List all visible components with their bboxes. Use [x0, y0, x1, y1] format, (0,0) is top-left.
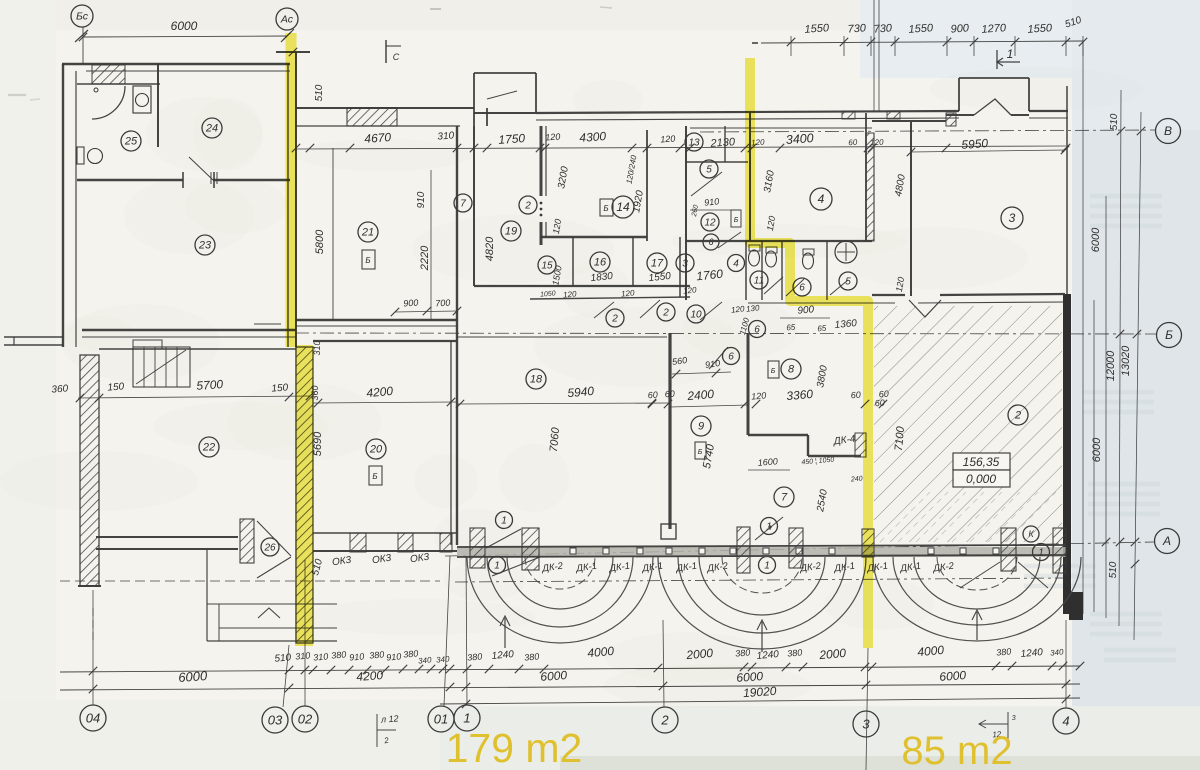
room circle 11 [750, 271, 768, 289]
svg-text:6000: 6000 [939, 668, 967, 684]
svg-text:85 m2: 85 m2 [901, 729, 1012, 770]
ext line 02 [304, 560, 306, 706]
wall 13-5 [686, 161, 748, 163]
ghost text right margin [1024, 196, 1176, 660]
svg-text:6000: 6000 [171, 19, 198, 33]
svg-text:5: 5 [706, 164, 712, 175]
room2 extra hatch dashes [880, 492, 1056, 542]
svg-text:179 m2: 179 m2 [446, 725, 583, 770]
svg-text:17: 17 [651, 258, 664, 270]
room18 dim line [457, 403, 670, 404]
room18 left wall [456, 320, 458, 545]
axis line B [295, 333, 1156, 334]
svg-text:2400: 2400 [686, 387, 715, 403]
wall step v [807, 435, 809, 456]
door diag win [755, 517, 783, 540]
arrow arcs mid [761, 622, 763, 652]
room4 left wall [749, 113, 751, 241]
svg-text:1270: 1270 [981, 22, 1007, 36]
axis circle 3 [853, 711, 879, 737]
room circle 7 door [454, 194, 472, 212]
room3 top wall piece [872, 120, 946, 122]
room21 top wall [296, 107, 474, 109]
window pillar 6 [1001, 528, 1016, 571]
svg-text:4: 4 [1062, 713, 1069, 728]
svg-text:310: 310 [312, 340, 322, 355]
left margin [0, 0, 56, 700]
svg-text:310: 310 [295, 650, 311, 661]
svg-text:Б: Б [734, 217, 739, 224]
toilet left wall [745, 241, 747, 300]
svg-text:1: 1 [494, 560, 500, 571]
svg-text:3: 3 [1012, 715, 1017, 722]
room21 right wall [456, 126, 458, 320]
right dim line e [1134, 112, 1141, 640]
svg-text:120: 120 [731, 304, 746, 314]
level box [953, 453, 1010, 470]
building right wall thick [1063, 294, 1071, 614]
svg-text:5700: 5700 [196, 377, 224, 393]
blue-gray right margin [1072, 0, 1200, 770]
staircase [133, 347, 190, 387]
room3 top hatch [946, 113, 956, 126]
window pillar 5 [862, 529, 874, 557]
DK labels row [541, 561, 956, 575]
svg-text:380: 380 [996, 646, 1012, 657]
svg-text:2: 2 [660, 712, 669, 727]
scan mottling [0, 67, 1143, 708]
svg-text:2130: 2130 [709, 136, 736, 150]
svg-text:12: 12 [704, 217, 716, 228]
dim 910 small [690, 209, 740, 211]
bathroom inner wall [77, 83, 160, 85]
dim 900 corr [780, 317, 830, 319]
main dim row [296, 146, 1066, 149]
svg-text:1240: 1240 [1020, 647, 1044, 660]
svg-text:1: 1 [463, 710, 470, 725]
svg-text:380: 380 [403, 648, 419, 659]
svg-text:120: 120 [545, 131, 561, 142]
terrace steps [206, 550, 208, 641]
svg-text:7100: 7100 [893, 425, 907, 451]
wall step h2 [808, 455, 861, 457]
svg-text:1360: 1360 [834, 318, 858, 331]
svg-text:22: 22 [202, 442, 215, 454]
toilet door diag [764, 277, 783, 294]
room14 right wall [646, 130, 648, 241]
bottom dim row 3 [440, 698, 1080, 704]
room circle 25 [121, 131, 141, 151]
svg-text:120: 120 [751, 390, 767, 401]
ext line 1 [466, 556, 467, 705]
svg-text:Б: Б [603, 204, 608, 213]
door jamb ticks [182, 172, 184, 188]
ext line 01 [444, 556, 450, 706]
section line vertical [873, 0, 875, 112]
svg-text:910: 910 [349, 651, 365, 662]
svg-text:360: 360 [51, 383, 69, 395]
svg-text:6000: 6000 [178, 668, 209, 685]
svg-text:3: 3 [682, 258, 688, 269]
left hatched wall [80, 355, 99, 586]
svg-text:2: 2 [611, 313, 618, 324]
axis circle 4 [1053, 708, 1079, 734]
svg-text:24: 24 [205, 123, 218, 135]
svg-text:1550: 1550 [908, 22, 934, 36]
corridor inner wall [530, 297, 690, 299]
bottom strip right [440, 706, 1200, 770]
room circle 2 small [519, 196, 537, 214]
pillar hatched room22 [240, 519, 254, 563]
axis circle 04 [80, 705, 106, 731]
entrance bay [958, 78, 960, 111]
room circle 6 corr [749, 321, 766, 338]
door leaf room12 [718, 232, 741, 248]
main top wall [536, 111, 959, 113]
toilet partition 2 [781, 241, 783, 300]
room14 left wall [545, 126, 547, 196]
right dim line c [1105, 196, 1107, 618]
margin specks [8, 94, 26, 96]
room19 right wall [540, 126, 543, 196]
svg-text:560: 560 [671, 355, 687, 367]
svg-text:4000: 4000 [917, 643, 945, 659]
wall under rooms 25-24 [77, 179, 183, 181]
room circle 21 [358, 222, 378, 242]
svg-text:21: 21 [361, 227, 374, 239]
axis circle V [1156, 119, 1181, 144]
room circle 15 [538, 256, 556, 274]
svg-text:910: 910 [416, 191, 427, 208]
svg-text:340: 340 [1050, 647, 1065, 657]
svg-text:14: 14 [616, 200, 630, 214]
svg-text:Б: Б [771, 368, 776, 375]
room circle 22 [199, 437, 219, 457]
svg-text:120: 120 [563, 289, 578, 299]
room21 B box [362, 250, 375, 269]
ext line 3 [866, 648, 868, 770]
party wall hatched lower [296, 347, 313, 643]
room9 top dim [672, 372, 731, 374]
room3 dim line [911, 150, 1065, 152]
room9-8 divide dim [670, 405, 748, 407]
bay side walls [473, 113, 475, 126]
toilet row top wall [686, 240, 872, 242]
hatched block top wall [347, 108, 397, 126]
svg-text:13020: 13020 [1120, 345, 1132, 376]
bottom row2 ticks [89, 680, 1070, 693]
room circle 1 wR [1033, 544, 1050, 561]
room2 door V [909, 300, 941, 317]
svg-text:16: 16 [594, 257, 607, 269]
revision mark 12 right [980, 723, 1008, 725]
room19 left wall [473, 126, 475, 286]
wall 9 right [747, 333, 750, 435]
room21 left inner line [332, 148, 334, 320]
terrace dashed line [60, 580, 440, 582]
svg-text:310: 310 [437, 130, 455, 142]
room20 window wall [313, 532, 457, 534]
room circle 10 [687, 305, 705, 323]
svg-text:3360: 3360 [786, 387, 814, 403]
svg-text:510: 510 [1109, 113, 1120, 130]
svg-text:1760: 1760 [696, 267, 724, 284]
axis circle Ac [276, 8, 298, 30]
room2 floor hatch [874, 306, 1062, 542]
svg-text:12000: 12000 [1105, 350, 1117, 381]
svg-text:10: 10 [690, 309, 702, 320]
washing machine [133, 86, 151, 113]
room2 top wall [872, 294, 905, 296]
yellow highlight line 1 upper [286, 33, 297, 347]
svg-text:510: 510 [314, 84, 325, 101]
toilet fixture 3 [803, 249, 814, 255]
svg-text:6: 6 [708, 237, 713, 247]
svg-text:6: 6 [728, 351, 734, 362]
svg-text:В: В [1164, 124, 1172, 138]
window pillar 7 [1053, 528, 1066, 573]
room4 right wall [865, 113, 867, 241]
svg-text:А: А [1162, 534, 1171, 548]
svg-text:0,000: 0,000 [966, 472, 996, 486]
svg-text:4300: 4300 [579, 129, 607, 145]
room circle K [1023, 526, 1039, 542]
entrance arcs left [467, 557, 653, 643]
window band fill [457, 547, 1066, 557]
svg-text:60: 60 [647, 390, 658, 401]
room20 window pillars [350, 533, 366, 552]
svg-text:4200: 4200 [356, 668, 384, 684]
toilet fixture 1 [749, 245, 760, 251]
wall step hatch [855, 433, 866, 457]
svg-text:2: 2 [524, 200, 531, 211]
room20 top wall [313, 340, 457, 342]
axis circle Bc [71, 5, 93, 27]
room20 B box [369, 466, 382, 485]
svg-text:60: 60 [874, 398, 885, 409]
room circle 18 [526, 369, 546, 389]
svg-text:900: 900 [950, 22, 970, 35]
room circle 17 [647, 253, 667, 273]
svg-text:19020: 19020 [743, 684, 778, 700]
axis circle 02 [292, 706, 318, 732]
svg-text:Б: Б [372, 472, 377, 481]
room14 B box [600, 199, 613, 216]
room circle 5 wc [700, 160, 718, 178]
door swings room26 [257, 521, 291, 556]
door swing winR [1018, 562, 1048, 588]
axis line A [445, 542, 1154, 556]
room12 B box [731, 210, 741, 227]
room21 bottom wall [296, 319, 457, 321]
room circle 3 [1001, 207, 1023, 229]
svg-text:6000: 6000 [540, 668, 568, 684]
party wall top T [276, 51, 310, 53]
svg-text:380: 380 [524, 651, 540, 662]
room22 bottom wall [96, 536, 238, 538]
room8 B box [768, 361, 779, 378]
svg-text:60: 60 [664, 389, 675, 400]
svg-text:3400: 3400 [785, 131, 814, 147]
ext line 03 [283, 645, 289, 707]
svg-text:13: 13 [688, 137, 700, 148]
svg-text:3: 3 [1009, 211, 1016, 225]
bottom row1 labels [274, 643, 1064, 666]
room circle 16 [590, 252, 610, 272]
top bay [473, 73, 475, 113]
entrance bay peak [974, 99, 1011, 115]
canopy dash line [455, 578, 1066, 582]
svg-text:130: 130 [746, 303, 761, 313]
svg-text:150: 150 [271, 382, 289, 394]
axis circle 01 [428, 706, 454, 732]
main dim row ticks [292, 144, 1070, 152]
axis tick under Bc [75, 30, 88, 42]
svg-text:1600: 1600 [757, 456, 778, 468]
window pillar 4 [789, 528, 803, 568]
svg-text:1750: 1750 [498, 131, 526, 147]
yellow highlight line 2 [750, 58, 868, 648]
room circle 6 topdoor [723, 348, 740, 365]
svg-text:510: 510 [1108, 561, 1119, 578]
arrow arcs left [504, 618, 506, 648]
svg-text:Ас: Ас [280, 14, 294, 26]
svg-text:6000: 6000 [1090, 227, 1102, 252]
svg-text:1: 1 [1007, 47, 1014, 61]
svg-text:730: 730 [873, 22, 893, 35]
room21 inner dim line [430, 170, 432, 320]
svg-text:156,35: 156,35 [963, 455, 1000, 469]
room21 small dims [395, 311, 457, 312]
svg-text:4820: 4820 [484, 236, 496, 261]
room circle 13 [685, 133, 703, 151]
dim row left block [78, 396, 310, 398]
svg-text:23: 23 [198, 240, 212, 252]
dim 1600 [748, 469, 790, 471]
svg-text:9: 9 [698, 421, 704, 433]
svg-text:65: 65 [786, 323, 796, 333]
svg-text:7060: 7060 [548, 426, 562, 452]
bottom dim row 1 [60, 666, 1080, 672]
door dots room19 [540, 202, 542, 204]
room circle 1 w18b [489, 557, 506, 574]
top wall left block [62, 63, 290, 65]
svg-text:18: 18 [530, 374, 543, 386]
window pillar 3 [737, 527, 750, 573]
svg-text:С: С [393, 52, 400, 62]
ext line 2 [663, 620, 664, 707]
svg-text:1550: 1550 [804, 22, 830, 36]
room circle 2 corr a [606, 309, 624, 327]
door diag 6 [709, 347, 728, 369]
svg-text:26: 26 [263, 542, 276, 553]
room18 top line [457, 336, 667, 338]
bay floor wall [474, 112, 536, 114]
room circle 1 w7a [769, 526, 771, 528]
bottom dim row 2 [60, 684, 1080, 690]
ext line 04 [92, 590, 94, 705]
room circle 6 wc [793, 278, 811, 296]
dim row room20 [313, 402, 457, 403]
top dimension ticks [787, 36, 1087, 56]
bathroom hatched wall [92, 65, 125, 84]
svg-text:4670: 4670 [364, 130, 392, 146]
right wall upper thin [1066, 86, 1068, 294]
bottom row2 labels [178, 668, 967, 685]
svg-text:1: 1 [1038, 547, 1044, 558]
corridor top wall [474, 285, 690, 287]
svg-text:1050: 1050 [540, 290, 556, 298]
svg-text:900: 900 [797, 304, 815, 316]
svg-text:03: 03 [268, 712, 283, 727]
room circle 3 small [676, 254, 694, 272]
window band mullions [570, 548, 999, 554]
svg-text:1240: 1240 [756, 649, 780, 662]
room circle 2 [1008, 405, 1028, 425]
right dim line b [1093, 300, 1095, 612]
room circle 6 small [703, 234, 719, 250]
svg-text:2000: 2000 [685, 646, 714, 662]
bottom row1 ticks [89, 662, 1084, 675]
svg-text:Б: Б [698, 449, 703, 456]
svg-text:04: 04 [86, 710, 100, 725]
svg-text:5690: 5690 [312, 431, 324, 456]
axis tick under Ac [281, 29, 294, 42]
white drawing area [40, 30, 1080, 710]
right dim ticks [1102, 127, 1145, 568]
svg-text:380: 380 [735, 647, 751, 658]
svg-text:1: 1 [764, 560, 770, 571]
bottom strip left [0, 700, 440, 770]
arrow arcs right [976, 612, 978, 640]
room circle 1 w18a [496, 512, 513, 529]
svg-text:310: 310 [313, 651, 329, 662]
svg-text:25: 25 [124, 136, 138, 148]
svg-text:Бс: Бс [76, 11, 89, 23]
room circle 4 [810, 188, 832, 210]
bottom edge band [560, 756, 1200, 770]
svg-text:1: 1 [501, 515, 507, 526]
room circle 7 [774, 487, 794, 507]
svg-text:120: 120 [683, 285, 698, 295]
svg-text:240: 240 [850, 476, 863, 484]
dimension 6000 top left [83, 36, 287, 37]
room circle 12 [701, 213, 719, 231]
svg-text:4: 4 [733, 258, 739, 269]
right wall foot [1069, 592, 1083, 620]
window band lines [457, 545, 1066, 547]
room circle 26 [261, 538, 279, 556]
svg-text:380: 380 [369, 649, 385, 660]
wall 18-9 [668, 333, 671, 529]
axis circle B [1157, 323, 1182, 348]
svg-text:Б: Б [1165, 328, 1173, 342]
svg-text:6000: 6000 [1091, 437, 1103, 462]
top right tint [1072, 0, 1200, 130]
partition 17-3 [679, 237, 681, 297]
room circle 2 corr b [657, 303, 675, 321]
room3 left wall [910, 122, 912, 296]
shower quarter circle [92, 86, 125, 119]
ext line 4 [1065, 620, 1067, 708]
door swing win18 b [492, 557, 540, 576]
svg-text:700: 700 [435, 297, 451, 308]
svg-text:910: 910 [386, 651, 402, 662]
bottom wall left block [82, 329, 296, 331]
partition 16-17 [632, 237, 634, 286]
room circle 23 [195, 235, 215, 255]
toilet partition 1 [761, 241, 763, 300]
